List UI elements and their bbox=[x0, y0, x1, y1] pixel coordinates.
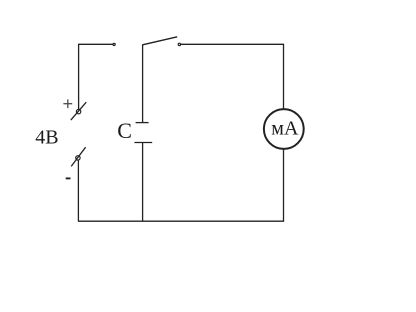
wire: bottom-left corner up to battery - terminal bbox=[77, 160, 79, 221]
wire: top node down to capacitor top plate bbox=[142, 44, 144, 122]
wire: switch right contact to top-right corner and down to meter bbox=[181, 44, 284, 109]
milliammeter PA1 circle bbox=[264, 109, 304, 149]
battery positive terminal (circle with lead slash) bbox=[71, 102, 86, 120]
wire: bottom horizontal bbox=[78, 220, 284, 222]
label: battery - polarity bbox=[66, 177, 71, 179]
switch S1 right contact bbox=[178, 43, 180, 45]
capacitor C top plate bbox=[136, 122, 149, 124]
switch S1 blade (open) bbox=[143, 37, 178, 45]
label: battery + polarity bbox=[63, 99, 72, 108]
battery negative terminal (circle with lead slash) bbox=[71, 147, 85, 166]
switch S1 left contact bbox=[113, 43, 115, 45]
capacitor C bottom plate bbox=[134, 142, 152, 144]
wire: capacitor bottom plate to bottom wire bbox=[142, 143, 144, 222]
svg-text:4В: 4В bbox=[35, 126, 58, 148]
svg-text:мА: мА bbox=[271, 117, 299, 139]
wire: meter bottom to bottom-right corner bbox=[283, 149, 285, 221]
svg-text:C: C bbox=[117, 118, 132, 143]
wire: battery + terminal up to top-left corner bbox=[79, 44, 113, 109]
